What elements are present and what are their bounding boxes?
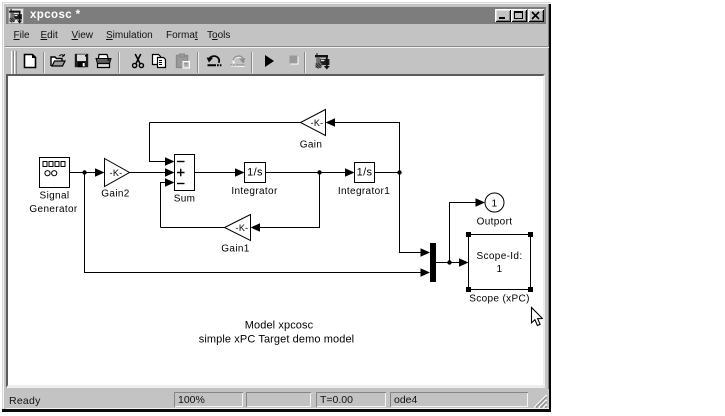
node junction at Integrator output [317, 170, 321, 174]
block Signal Generator [40, 158, 70, 188]
wire Mux to Scope [436, 258, 469, 267]
svg-text:Model xpcosc: Model xpcosc [245, 320, 314, 332]
build (xPC target) icon [314, 52, 332, 70]
svg-text:Gain1: Gain1 [221, 244, 250, 255]
wire Signal Generator branch to Mux lower input [85, 173, 431, 277]
node junction at Integrator1 output [397, 170, 401, 174]
svg-text:Integrator1: Integrator1 [338, 186, 390, 197]
mux Mux [430, 243, 436, 282]
wire Gain output to feedback corner [150, 122, 301, 124]
resize grip [534, 395, 547, 408]
open icon [50, 53, 67, 69]
gain Gain [301, 110, 326, 136]
gain Gain2 [105, 159, 130, 187]
block Sum [175, 155, 195, 191]
title text [30, 9, 81, 21]
svg-text:Gain: Gain [300, 140, 323, 151]
svg-text:Signal: Signal [40, 191, 70, 202]
block Integrator [245, 163, 266, 183]
svg-text:1/s: 1/s [357, 167, 373, 179]
svg-text:simple xPC Target demo model: simple xPC Target demo model [199, 334, 354, 346]
stop button (disabled) [288, 54, 300, 66]
wire Gain1 output to Sum feedback corner [161, 227, 225, 229]
separator [304, 52, 306, 73]
menu bar [6, 25, 549, 46]
minimize button [495, 9, 511, 22]
wire Integrator to Integrator1 [266, 168, 355, 177]
gain Gain1 [225, 215, 251, 241]
annotation model description [199, 320, 354, 346]
status bar [6, 389, 549, 408]
label Signal Generator [29, 191, 77, 216]
maximize button [511, 9, 527, 22]
toolbar [5, 48, 549, 76]
cut icon [131, 53, 145, 69]
separator [251, 52, 253, 73]
node junction at Mux output [447, 260, 451, 264]
svg-text:Integrator: Integrator [231, 186, 278, 197]
close button [528, 9, 544, 22]
separator [118, 52, 120, 73]
wire Integrator1 output down to Mux upper input [400, 173, 431, 257]
svg-text:-K-: -K- [310, 118, 323, 128]
svg-text:Scope (xPC): Scope (xPC) [469, 294, 530, 305]
diagram canvas [6, 74, 545, 388]
selection handles of Scope [466, 232, 533, 292]
undo icon [206, 53, 222, 68]
svg-text:1: 1 [497, 264, 503, 275]
block Integrator1 [355, 163, 375, 183]
wire Integrator1 output up to Gain input [326, 118, 400, 172]
title bar model icon [8, 8, 24, 24]
svg-text:Outport: Outport [477, 217, 513, 228]
wire Mux output branch to Outport [450, 198, 486, 262]
svg-text:Sum: Sum [174, 194, 196, 205]
redo icon (disabled) [230, 53, 246, 68]
copy icon [151, 53, 167, 69]
play button [263, 54, 275, 68]
separator [197, 52, 199, 73]
save icon [74, 53, 89, 68]
outport Outport [485, 193, 504, 212]
menu / toolbar separator [5, 46, 549, 48]
wire Sum to Integrator [195, 168, 245, 177]
svg-text:1/s: 1/s [247, 167, 263, 179]
mouse cursor [532, 308, 543, 326]
wire Gain2 to Sum [130, 168, 175, 177]
svg-text:-K-: -K- [235, 223, 248, 233]
svg-text:Generator: Generator [29, 204, 77, 215]
paste icon (disabled) [175, 53, 191, 69]
scope Scope (xPC) [469, 235, 531, 290]
separator [43, 52, 45, 73]
svg-text:Gain2: Gain2 [101, 189, 130, 200]
node junction at Signal Generator output [82, 170, 86, 174]
svg-text:Scope-Id:: Scope-Id: [477, 251, 523, 262]
wire Signal Generator to Gain2 [70, 168, 105, 177]
window bottom shadow edge [2, 409, 551, 412]
new model icon [22, 53, 38, 69]
svg-text:1: 1 [492, 199, 498, 210]
wire Gain feedback to Sum top input [150, 123, 175, 166]
svg-text:-K-: -K- [109, 168, 122, 178]
print icon [95, 53, 112, 69]
wire Gain1 feedback to Sum bottom input [161, 178, 175, 227]
wire Integrator1 to junction [375, 172, 400, 174]
toolbar grip [11, 51, 14, 74]
wire Integrator output branch to Gain1 input [251, 173, 320, 232]
application window [2, 2, 551, 412]
title bar [6, 7, 546, 24]
